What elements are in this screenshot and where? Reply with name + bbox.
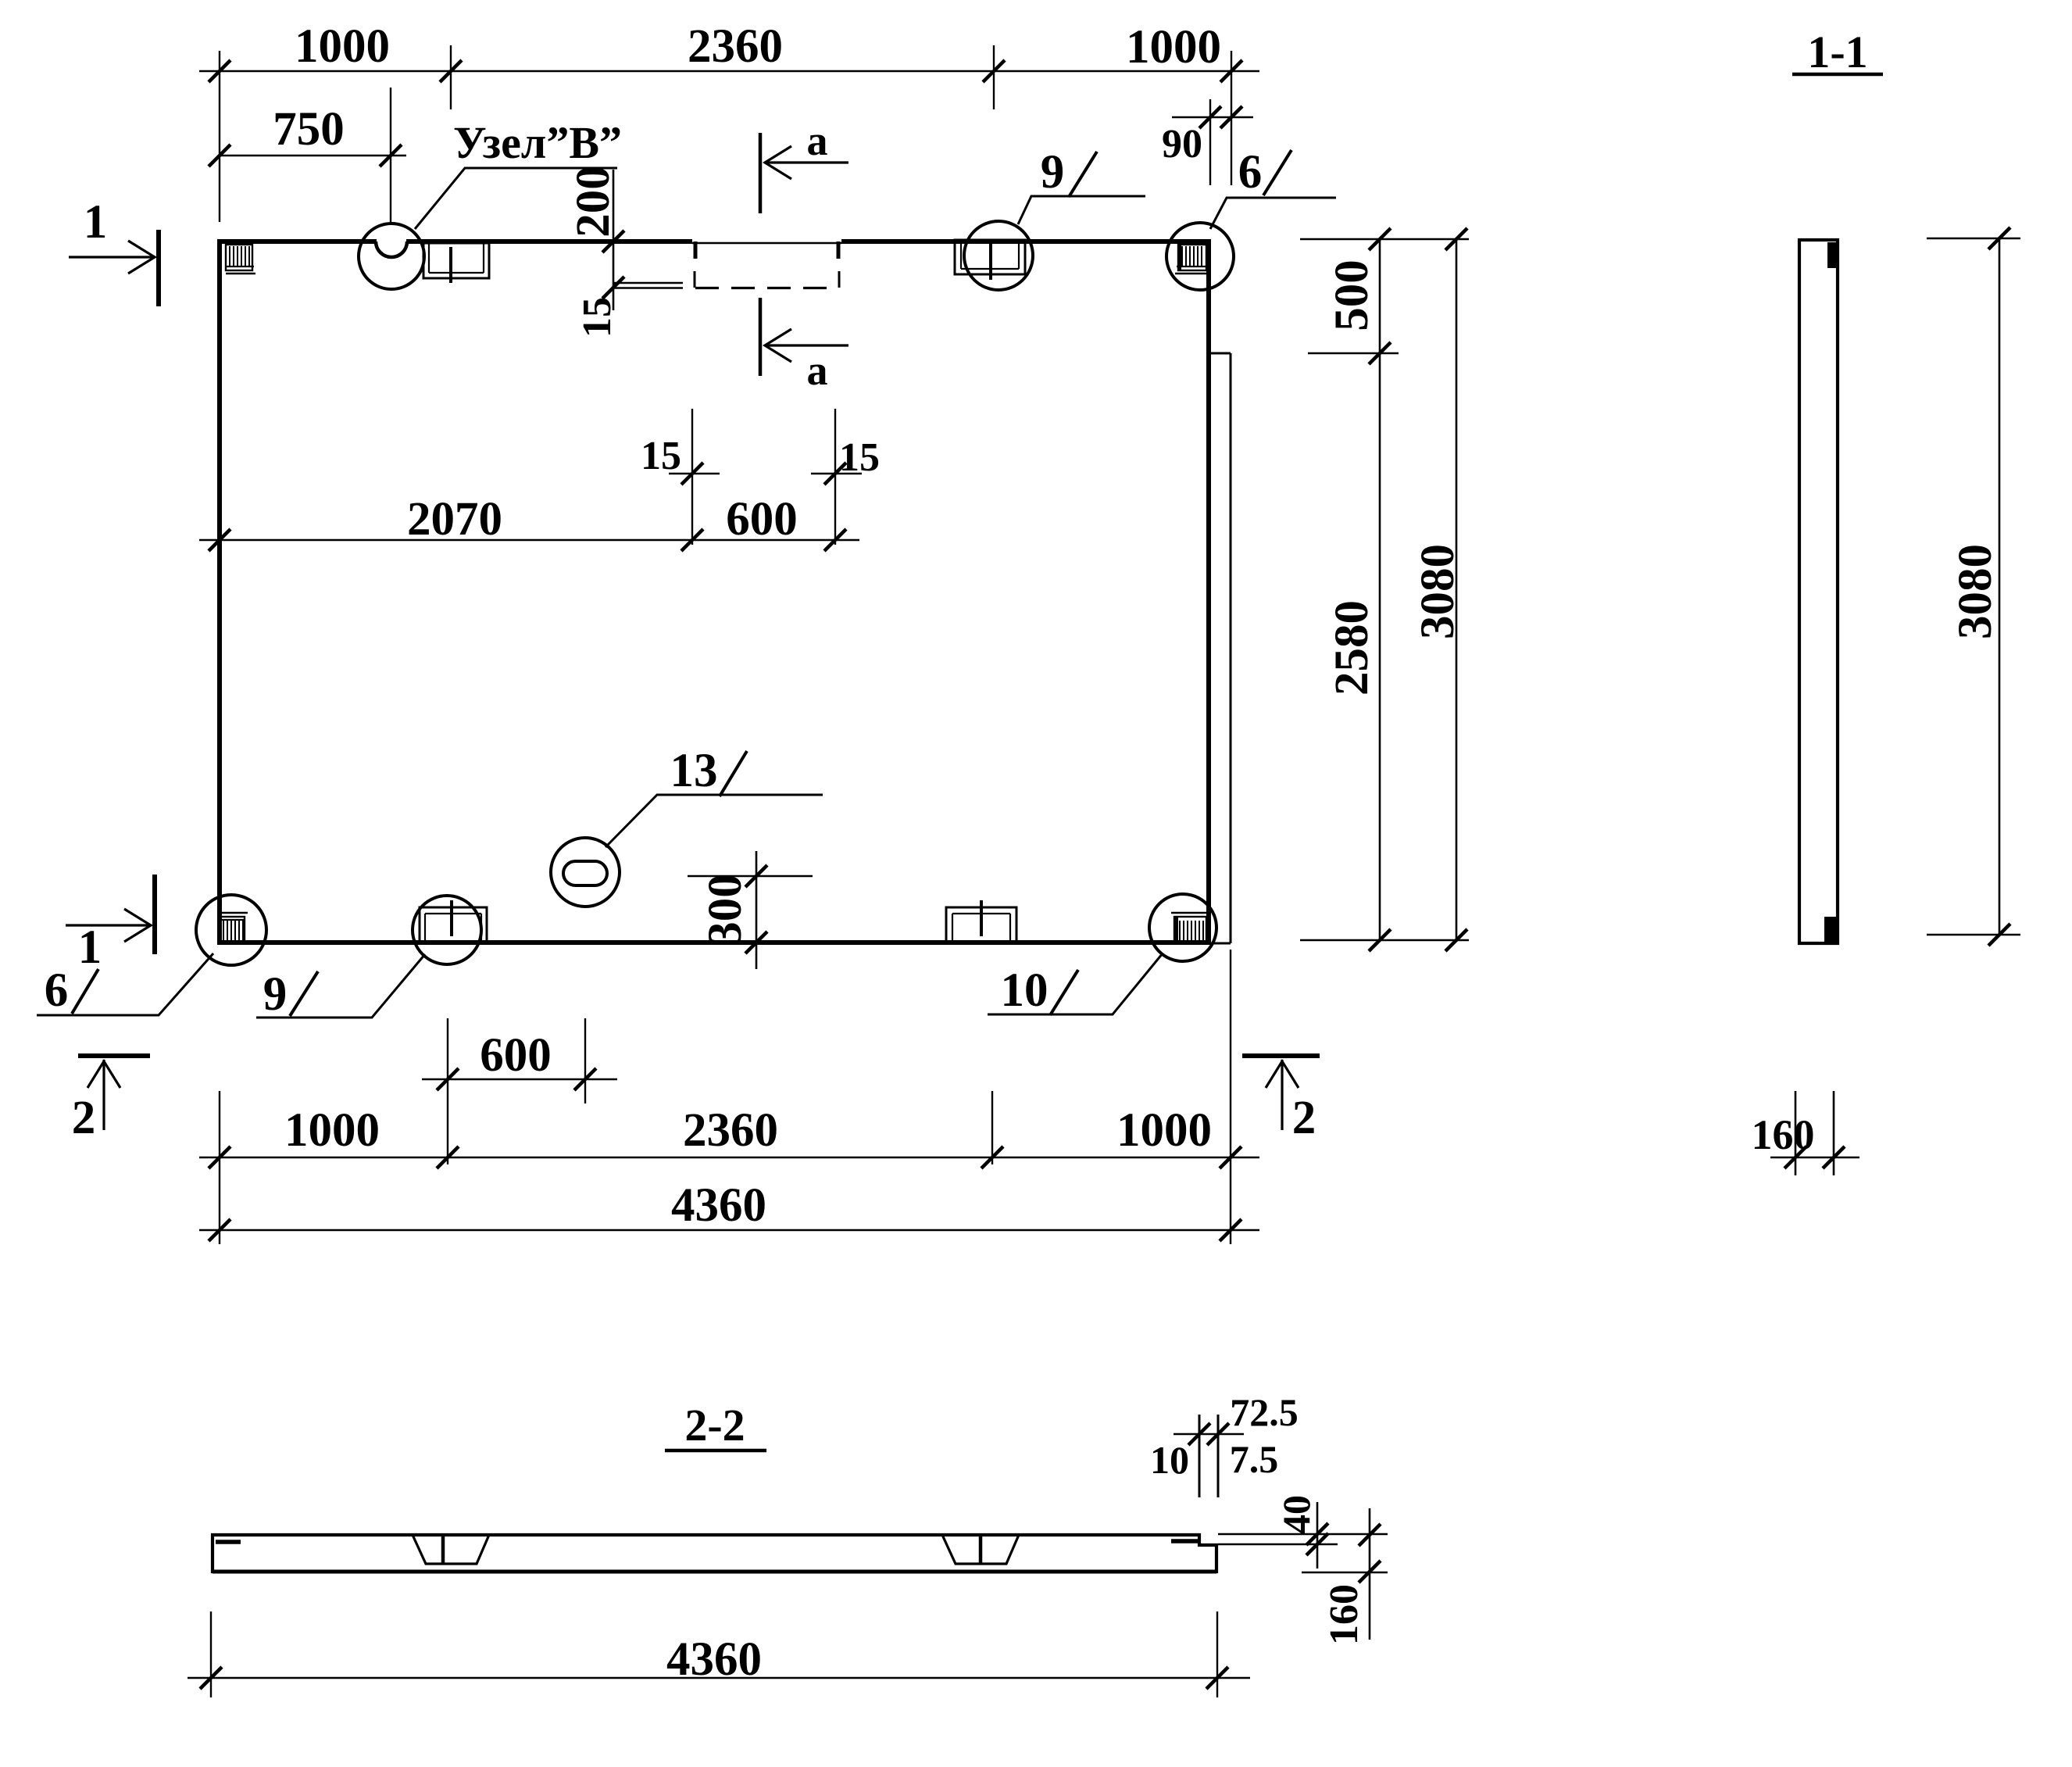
svg-text:1000: 1000 — [1126, 21, 1221, 73]
embed 9 top near node B — [423, 243, 489, 283]
svg-text:160: 160 — [1752, 1111, 1815, 1158]
svg-text:2: 2 — [1292, 1092, 1316, 1144]
section mark 2 left — [78, 1056, 150, 1130]
dim 300 — [688, 851, 813, 969]
hidden recess left riser — [694, 271, 696, 288]
svg-text:750: 750 — [273, 103, 345, 156]
side strip top — [1210, 352, 1231, 355]
svg-text:15: 15 — [641, 434, 681, 478]
section 2-2 trapezoid void left — [413, 1535, 489, 1564]
section mark 1 bottom — [66, 875, 155, 954]
svg-text:9: 9 — [263, 968, 288, 1021]
label 6 bottom shelf and leader — [37, 953, 213, 1015]
label 13 shelf and leader — [606, 795, 823, 847]
section mark 2 right — [1242, 1056, 1320, 1130]
recess right wall — [837, 241, 841, 259]
section mark a lower — [760, 298, 848, 376]
panel outline — [220, 241, 1209, 943]
dim 90 top-right — [1172, 99, 1253, 185]
dim 40 section 2-2 — [1218, 1502, 1388, 1568]
label 9 bottom shelf and leader — [256, 954, 425, 1018]
embed plate 6 top-left hatched — [226, 245, 255, 274]
dim 2070-600 — [199, 409, 862, 545]
svg-text:2580: 2580 — [1326, 600, 1378, 696]
callout circle 9 top — [964, 221, 1033, 290]
dim 3080 section 1-1 — [1927, 238, 2020, 935]
svg-text:2360: 2360 — [688, 20, 783, 73]
embed plate 10 bottom-right hatched — [1171, 913, 1206, 943]
svg-text:1000: 1000 — [1116, 1104, 1212, 1157]
dim 160 section 2-2 — [1302, 1508, 1388, 1640]
svg-text:600: 600 — [726, 493, 798, 545]
dim chain bottom 1000-2360-1000 — [199, 950, 1259, 1244]
recess thin top edge — [692, 238, 841, 245]
svg-text:4360: 4360 — [671, 1179, 766, 1232]
side strip bottom — [1210, 943, 1231, 945]
svg-text:300: 300 — [699, 874, 752, 946]
svg-text:15: 15 — [575, 297, 620, 338]
svg-text:2070: 2070 — [407, 493, 502, 545]
svg-text:a: a — [807, 117, 828, 164]
svg-text:6: 6 — [45, 964, 69, 1017]
svg-text:a: a — [807, 347, 828, 394]
svg-text:500: 500 — [1326, 259, 1378, 331]
section 1-1 top lip — [1827, 242, 1838, 268]
dim 4360 section 2-2 — [188, 1611, 1250, 1697]
hidden recess bottom dashed — [613, 287, 683, 288]
embed plate 6 bottom-left hatched — [220, 913, 248, 943]
label Uzel B leader — [415, 168, 617, 229]
section mark 1 top — [69, 230, 159, 306]
callout circle 10 bottom-right — [1149, 894, 1216, 961]
dim 750 — [220, 88, 406, 224]
label 9 top shelf and leader — [1018, 196, 1145, 224]
hidden recess right riser — [838, 271, 841, 288]
svg-text:10: 10 — [1150, 1438, 1189, 1482]
svg-text:1: 1 — [84, 196, 108, 249]
svg-text:1000: 1000 — [295, 20, 390, 73]
svg-text:2: 2 — [72, 1092, 96, 1144]
callout circle 6 bottom-left — [196, 895, 266, 965]
section 2-2 trapezoid void right — [942, 1535, 1019, 1564]
section 2-2 left lip — [216, 1540, 241, 1544]
section 1-1 bottom lip — [1824, 917, 1836, 943]
svg-text:40: 40 — [1274, 1495, 1318, 1534]
svg-text:Узел”В”: Узел”В” — [453, 117, 622, 168]
svg-text:6: 6 — [1238, 146, 1263, 199]
dim 500-2580 right — [1300, 239, 1469, 940]
section 1-1 body — [1799, 240, 1838, 943]
svg-text:160: 160 — [1322, 1584, 1366, 1645]
side strip right edge — [1230, 353, 1232, 943]
dim 4360 plan — [199, 1229, 1259, 1232]
svg-text:1-1: 1-1 — [1807, 27, 1867, 77]
svg-text:10: 10 — [1001, 964, 1049, 1017]
svg-text:2360: 2360 — [683, 1104, 778, 1157]
svg-text:13: 13 — [670, 745, 718, 797]
embed 9 bottom-right — [946, 900, 1016, 943]
svg-text:72.5: 72.5 — [1230, 1390, 1299, 1434]
svg-text:3080: 3080 — [1412, 544, 1464, 639]
dim chain top 1000-2360-1000 — [199, 45, 1259, 222]
svg-text:7.5: 7.5 — [1230, 1437, 1279, 1481]
dim 200-15 vertical at recess — [613, 170, 615, 310]
node B detail circle — [359, 224, 424, 289]
node B semicircular notch — [377, 238, 406, 245]
svg-text:4360: 4360 — [666, 1633, 762, 1686]
hidden edge solid thin — [613, 282, 683, 284]
callout circle 9 bottom — [413, 896, 481, 964]
section mark a upper — [760, 133, 848, 213]
embed plate 6 top-right hatched — [1175, 245, 1206, 274]
section 2-2 body — [213, 1535, 1216, 1572]
callout circle 6 top-right — [1166, 223, 1234, 290]
embed 9 top-center — [955, 240, 1025, 280]
section 2-2 bottom edge thick — [213, 1570, 1216, 1574]
svg-text:1000: 1000 — [284, 1104, 380, 1157]
title underline 2-2 — [665, 1449, 766, 1453]
dim 160 section 1-1 — [1770, 1091, 1859, 1175]
embed 9 bottom-left — [420, 900, 487, 943]
svg-text:3080: 3080 — [1949, 544, 2002, 639]
label 10 shelf and leader — [988, 953, 1163, 1014]
label 6 top shelf and leader — [1210, 198, 1336, 229]
svg-text:2-2: 2-2 — [684, 1400, 745, 1450]
svg-text:90: 90 — [1162, 122, 1202, 166]
svg-text:600: 600 — [480, 1029, 552, 1082]
dim 72.5-10-7.5 cluster — [1174, 1415, 1244, 1497]
svg-text:15: 15 — [839, 435, 880, 480]
title underline 1-1 — [1792, 73, 1883, 77]
svg-text:1: 1 — [78, 921, 102, 974]
dim 600 bottom — [422, 1018, 617, 1103]
recess left wall — [694, 241, 698, 259]
svg-text:200: 200 — [567, 166, 620, 238]
callout circle 13 with oval hole — [551, 838, 620, 907]
svg-text:9: 9 — [1041, 146, 1065, 199]
section 2-2 right lip — [1171, 1539, 1199, 1543]
